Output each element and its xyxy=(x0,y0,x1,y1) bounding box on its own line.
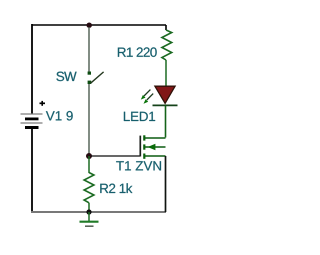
channel tick source xyxy=(143,154,145,159)
node junction top (switch tap on positive rail) xyxy=(87,23,92,28)
LED cathode bar xyxy=(153,104,178,106)
switch lever xyxy=(91,72,104,83)
wire top rail xyxy=(32,24,166,26)
wire switch branch upper xyxy=(88,27,90,72)
label T1 ZVN xyxy=(116,161,161,170)
transistor T1 (NMOS) xyxy=(140,135,165,159)
battery V1 xyxy=(21,101,46,129)
battery plate short thick xyxy=(25,118,39,121)
LED arrow 1 xyxy=(141,90,151,100)
node junction gate/R2 xyxy=(86,153,92,159)
label V1 9 xyxy=(46,111,73,121)
ground xyxy=(80,212,99,226)
battery plate long top xyxy=(21,113,43,115)
drain lead xyxy=(144,137,165,139)
node junction bottom (ground tap) xyxy=(86,209,91,214)
channel tick body xyxy=(143,144,145,149)
label SW xyxy=(56,72,76,82)
LED triangle xyxy=(155,86,175,103)
switch terminal dot upper xyxy=(88,72,91,75)
wire switch branch lower xyxy=(88,84,90,155)
resistor R2 xyxy=(84,156,94,212)
battery plate long middle xyxy=(21,122,43,124)
gate bar xyxy=(139,136,141,157)
resistor R1 xyxy=(162,25,172,86)
label R2 1k xyxy=(100,183,132,193)
wire LED cathode to drain xyxy=(165,105,167,137)
battery plus sign xyxy=(40,102,46,104)
label R1 220 xyxy=(118,47,157,57)
switch SW xyxy=(88,72,104,85)
battery plate short thick bottom xyxy=(25,126,39,129)
source lead xyxy=(144,155,165,157)
label LED1 xyxy=(124,112,155,121)
switch terminal dot lower xyxy=(88,81,92,84)
channel tick drain xyxy=(143,135,145,140)
LED LED1 xyxy=(141,86,178,105)
wire left branch upper (top rail to battery +) xyxy=(31,24,33,114)
LED arrow 2 xyxy=(144,94,154,104)
wire source to bottom rail xyxy=(165,156,167,212)
wire gate lead xyxy=(91,155,140,157)
body lead with arrow xyxy=(144,146,165,148)
wire left branch lower (battery - to bottom rail) xyxy=(31,128,33,212)
wire bottom rail (ground net) xyxy=(31,211,166,213)
